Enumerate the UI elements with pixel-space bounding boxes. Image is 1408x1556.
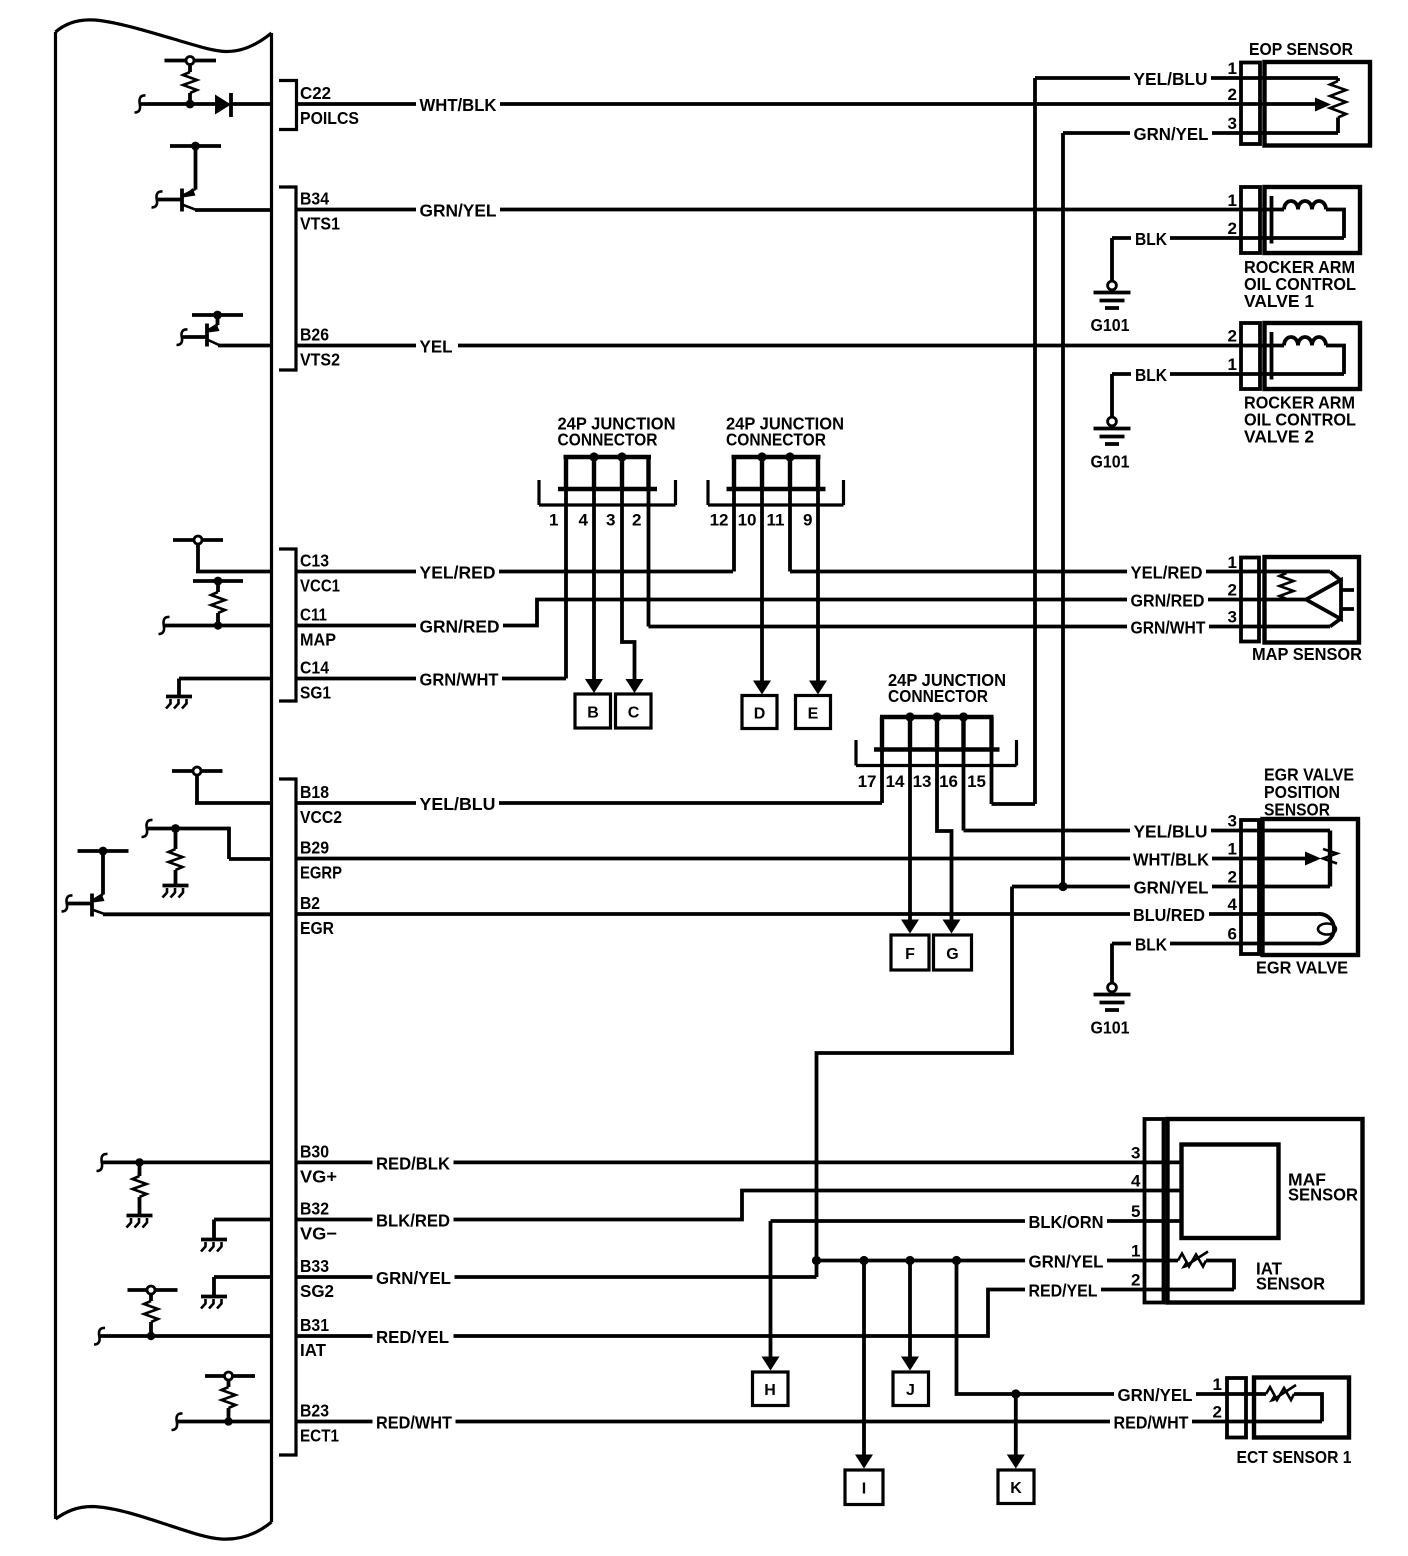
svg-text:VG−: VG−	[300, 1224, 337, 1244]
pin bracket C22	[279, 81, 297, 130]
wire YEL/RED junction 2 pin11 to MAP pin1	[790, 570, 1330, 574]
thermistor ECT	[1266, 1385, 1322, 1422]
wire junction 3 pin15 jog to riser	[992, 802, 1036, 806]
wire B30 internal with hook	[97, 1154, 108, 1171]
transistor Q-B26 rail	[192, 313, 243, 317]
svg-text:14: 14	[886, 772, 905, 791]
resistor R-C22	[188, 65, 192, 73]
wire B34 output	[195, 208, 272, 212]
wire BLK/ORN H riser to MAF pin5	[771, 1219, 1182, 1223]
svg-text:10: 10	[738, 511, 757, 530]
op-amp triangle MAP	[1306, 580, 1341, 619]
wire drop to H	[769, 1221, 773, 1358]
svg-text:D: D	[754, 706, 766, 723]
node GRN/YEL riser junction	[1058, 882, 1067, 891]
wire GRN/YEL EGR pin2	[1012, 885, 1330, 889]
svg-text:4: 4	[1131, 1172, 1141, 1191]
svg-text:CONNECTOR: CONNECTOR	[558, 430, 658, 450]
svg-text:GRN/YEL: GRN/YEL	[1118, 1385, 1193, 1405]
MAF sensor box	[1168, 1119, 1363, 1303]
junction 3 pin15 wire down	[990, 750, 994, 805]
svg-text:GRN/YEL: GRN/YEL	[420, 201, 497, 221]
svg-text:1: 1	[1228, 59, 1237, 78]
solenoid coil EGR valve	[1318, 914, 1334, 944]
wire BLU/RED B2 to EGR pin4	[297, 912, 1319, 916]
component name labels	[1091, 39, 1363, 1467]
svg-text:SG2: SG2	[300, 1281, 334, 1301]
EOP wiper arrow	[1315, 98, 1331, 112]
svg-text:B31: B31	[300, 1315, 329, 1335]
svg-text:13: 13	[913, 772, 932, 791]
rocker arm oil control valve 2 connector	[1241, 323, 1260, 389]
label YEL/BLU (EOP)	[1130, 69, 1211, 87]
svg-text:2: 2	[1228, 219, 1237, 238]
wire WHT/BLK B29 to EGR pin1	[297, 857, 1306, 861]
chassis ground B30	[127, 1216, 153, 1228]
chassis ground B33	[201, 1297, 227, 1309]
resistor R-B29	[174, 829, 178, 850]
transistor Q-B34 rail	[170, 144, 221, 148]
wire GRN/WHT junction 1 pin2 to MAP pin3	[649, 625, 1331, 629]
sensor pin numbers	[1131, 59, 1238, 1422]
svg-text:VTS2: VTS2	[300, 350, 340, 370]
svg-text:GRN/RED: GRN/RED	[1131, 591, 1205, 611]
svg-text:VALVE 1: VALVE 1	[1244, 291, 1314, 311]
svg-text:GRN/YEL: GRN/YEL	[1134, 124, 1209, 144]
svg-text:12: 12	[710, 511, 729, 530]
svg-text:B26: B26	[300, 325, 329, 345]
svg-text:C13: C13	[300, 551, 329, 571]
junction 1 pin1 wire down to GRN/WHT	[564, 489, 568, 679]
continuation arrow E	[809, 681, 827, 695]
svg-text:B2: B2	[300, 893, 320, 913]
label GRN/YEL (ECT)	[1114, 1385, 1196, 1403]
svg-text:2: 2	[632, 511, 641, 530]
resistor R-B23	[227, 1380, 231, 1387]
ground G101 (rocker valve 1)	[1094, 281, 1131, 308]
label GRN/WHT (MAP)	[1127, 618, 1209, 636]
ground wire BLK rocker valve 1	[1112, 236, 1134, 240]
svg-text:SG1: SG1	[300, 683, 331, 703]
wire C13 internal	[196, 570, 272, 574]
label RED/WHT (ECT)	[1110, 1413, 1192, 1431]
wire BLK/RED B32 to MAF pin4	[297, 1191, 1182, 1220]
svg-text:15: 15	[967, 772, 986, 791]
svg-text:I: I	[862, 1481, 866, 1498]
svg-text:B30: B30	[300, 1141, 329, 1161]
resistor EOP sensing element	[1336, 78, 1340, 81]
svg-text:1: 1	[1213, 1375, 1222, 1394]
label GRN/RED	[416, 617, 503, 635]
pin bracket B34/B26	[279, 187, 296, 370]
continuation arrow G	[943, 920, 961, 934]
label GRN/RED (MAP)	[1127, 591, 1208, 609]
transistor Q-B2	[62, 894, 106, 917]
label GRN/WHT	[416, 670, 502, 688]
svg-text:BLU/RED: BLU/RED	[1133, 905, 1205, 925]
svg-text:9: 9	[803, 511, 812, 530]
coil rocker valve 2	[1284, 337, 1326, 346]
wire RED/YEL B31 riser to MAF pin2	[297, 1290, 1235, 1337]
svg-text:CONNECTOR: CONNECTOR	[888, 686, 988, 706]
EOP sensor connector	[1241, 63, 1260, 145]
junction 2 pin10 wire to D	[760, 489, 764, 682]
wire B26 output	[218, 344, 272, 348]
label YEL/BLU	[416, 794, 499, 812]
label BLK (RAV1)	[1131, 229, 1170, 247]
wire C11 internal with hook	[159, 617, 170, 634]
svg-text:B23: B23	[300, 1401, 329, 1421]
svg-text:5: 5	[1131, 1202, 1140, 1221]
label BLK (RAV2)	[1131, 365, 1170, 383]
svg-text:SENSOR: SENSOR	[1288, 1185, 1358, 1205]
label YEL	[416, 337, 458, 355]
wire YEL B26 to rocker valve 2 pin2	[297, 344, 1285, 348]
svg-text:3: 3	[1228, 608, 1237, 627]
EGR wiper arrow	[1305, 852, 1321, 866]
label GRN/YEL	[373, 1268, 455, 1286]
wire YEL/BLU B18 to junction 3 pin17	[297, 801, 883, 805]
junction 3 pin17 wire down to YEL/BLU	[880, 750, 884, 804]
svg-text:RED/BLK: RED/BLK	[376, 1153, 450, 1173]
junction 3 pin14 wire to F	[908, 750, 912, 921]
wire GRN/YEL riser EOP pin3	[1061, 133, 1065, 887]
wire B33 internal	[214, 1275, 272, 1279]
continuation arrow B	[585, 679, 603, 693]
label YEL/BLU (EGR)	[1130, 822, 1211, 840]
svg-text:VTS1: VTS1	[300, 214, 340, 234]
wire GRN/YEL B34 to rocker valve 1 pin1	[297, 208, 1285, 212]
continuation arrow H	[762, 1357, 780, 1371]
svg-text:C22: C22	[300, 83, 331, 103]
chassis ground B32	[201, 1240, 227, 1252]
label GRN/YEL	[416, 201, 500, 219]
svg-text:2: 2	[1228, 581, 1237, 600]
continuation arrow I	[855, 1455, 873, 1469]
rocker arm oil control valve 1 box	[1265, 187, 1361, 253]
svg-text:4: 4	[579, 511, 589, 530]
label WHT/BLK (EGR)	[1130, 850, 1212, 868]
wire B18 internal	[195, 801, 272, 805]
svg-text:YEL: YEL	[420, 337, 453, 357]
continuation arrow J	[901, 1357, 919, 1371]
label BLU/RED (EGR)	[1130, 905, 1209, 923]
resistor MAP internal	[1280, 573, 1294, 599]
junction 3 pin13 wire to G	[937, 750, 952, 921]
wire YEL/RED C13 to junction 2 pin12	[297, 570, 734, 574]
svg-text:17: 17	[858, 772, 877, 791]
label RED/YEL (MAF)	[1025, 1281, 1101, 1299]
svg-text:K: K	[1010, 1480, 1022, 1497]
svg-text:1: 1	[1228, 553, 1237, 572]
svg-text:3: 3	[606, 511, 615, 530]
svg-text:GRN/RED: GRN/RED	[420, 617, 500, 637]
junction 2 pin11 wire down	[788, 489, 792, 572]
svg-text:1: 1	[1131, 1242, 1140, 1261]
C22 internal pull-up rail	[165, 59, 217, 63]
svg-text:1: 1	[1228, 840, 1237, 859]
resistor R-B30	[138, 1162, 142, 1176]
svg-text:RED/WHT: RED/WHT	[1114, 1413, 1189, 1433]
wire drop to J	[908, 1261, 912, 1358]
wire GRN/YEL bus to MAF pin1	[817, 1259, 1179, 1263]
C13 internal rail	[173, 538, 223, 542]
svg-text:POILCS: POILCS	[300, 108, 359, 128]
svg-text:3: 3	[1228, 812, 1237, 831]
svg-text:EGR: EGR	[300, 918, 334, 938]
svg-text:G101: G101	[1091, 452, 1130, 472]
svg-text:4: 4	[1228, 895, 1238, 914]
junction 1 pin2 wire down	[647, 489, 651, 627]
svg-text:GRN/YEL: GRN/YEL	[376, 1268, 451, 1288]
ECM pin code/name labels	[300, 83, 359, 1446]
svg-text:C: C	[628, 705, 640, 722]
wire B31 internal with hook	[94, 1328, 105, 1345]
svg-text:BLK: BLK	[1135, 229, 1167, 249]
svg-text:3: 3	[1131, 1144, 1140, 1163]
ground wire BLK EGR pin6	[1112, 942, 1134, 946]
label YEL/RED	[416, 563, 499, 581]
rocker arm oil control valve 2 box	[1265, 323, 1361, 389]
EGR valve box	[1263, 819, 1359, 955]
label RED/YEL	[373, 1327, 454, 1345]
node GRN/YEL bus to ECT	[952, 1256, 961, 1265]
ECT sensor 1 connector	[1227, 1378, 1246, 1438]
svg-text:BLK: BLK	[1135, 935, 1167, 955]
label YEL/RED (MAP)	[1127, 563, 1206, 581]
junction connector 3 (24P)	[856, 712, 1017, 765]
resistor EGR position track	[1328, 831, 1332, 887]
svg-text:G101: G101	[1091, 1018, 1130, 1038]
transistor Q-B34	[152, 188, 198, 212]
chassis ground C14	[166, 697, 192, 709]
label GRN/YEL (MAF)	[1025, 1252, 1107, 1270]
svg-text:B33: B33	[300, 1256, 329, 1276]
svg-text:VG+: VG+	[300, 1166, 337, 1186]
EOP sensor box	[1265, 62, 1371, 146]
svg-text:YEL/BLU: YEL/BLU	[1134, 69, 1208, 89]
svg-text:C14: C14	[300, 658, 329, 678]
resistor R-B31	[149, 1294, 153, 1301]
svg-text:YEL/RED: YEL/RED	[1131, 563, 1203, 583]
ground G101 (EGR)	[1094, 983, 1131, 1010]
B18 internal rail	[172, 769, 223, 773]
wire RED/BLK B30 to MAF pin3	[297, 1161, 1182, 1165]
svg-text:WHT/BLK: WHT/BLK	[420, 95, 497, 115]
junction 2 pin9 wire to E	[816, 489, 820, 682]
svg-text:H: H	[764, 1382, 776, 1399]
svg-text:YEL/BLU: YEL/BLU	[420, 794, 496, 814]
svg-text:CONNECTOR: CONNECTOR	[726, 430, 826, 450]
EGR valve connector	[1241, 820, 1259, 954]
continuation arrow D	[753, 681, 771, 695]
pin bracket C13/C11/C14	[279, 549, 296, 701]
svg-text:VCC1: VCC1	[300, 576, 340, 596]
svg-text:MAP SENSOR: MAP SENSOR	[1252, 644, 1362, 664]
coil rocker valve 1	[1284, 201, 1326, 210]
svg-text:B34: B34	[300, 189, 329, 209]
MAP sensor connector	[1241, 558, 1259, 642]
wire drop to K	[1014, 1394, 1018, 1456]
label GRN/YEL (EOP)	[1130, 124, 1212, 142]
junction connector headers and pin numbers	[549, 414, 1006, 792]
svg-text:GRN/YEL: GRN/YEL	[1029, 1252, 1104, 1272]
svg-text:BLK: BLK	[1135, 365, 1167, 385]
svg-text:B: B	[587, 705, 599, 722]
svg-text:1: 1	[1228, 355, 1237, 374]
svg-text:EGRP: EGRP	[300, 863, 342, 883]
MAP sensor box	[1265, 557, 1360, 643]
svg-text:G: G	[946, 946, 958, 963]
junction 1 pin4 wire to B	[592, 489, 596, 680]
wire YEL/BLU junction 3 pin16 to EGR pin3	[964, 829, 1331, 833]
svg-text:IAT: IAT	[300, 1340, 326, 1360]
transistor Q-B2 rail	[78, 849, 129, 853]
svg-text:G101: G101	[1091, 315, 1130, 335]
C11 internal rail	[193, 579, 243, 583]
label BLK/ORN (MAF)	[1025, 1212, 1107, 1230]
wire colour labels left	[373, 95, 504, 1433]
svg-text:RED/YEL: RED/YEL	[376, 1327, 449, 1347]
junction 1 pin3 wire to C	[622, 489, 635, 680]
wire C14 internal	[179, 677, 272, 681]
svg-text:2: 2	[1228, 868, 1237, 887]
continuation arrow C	[626, 679, 644, 693]
wire GRN/YEL route EGR to MAF area	[817, 887, 1013, 1261]
svg-text:YEL/RED: YEL/RED	[420, 563, 496, 583]
wire RED/WHT B23 to ECT pin2	[297, 1420, 1323, 1424]
svg-text:RED/YEL: RED/YEL	[1029, 1281, 1098, 1301]
svg-text:16: 16	[939, 772, 958, 791]
svg-text:BLK/ORN: BLK/ORN	[1029, 1212, 1104, 1232]
svg-text:1: 1	[1228, 191, 1237, 210]
ground wire BLK rocker valve 2	[1112, 372, 1134, 376]
wire GRN/YEL bus drop to ECT pin1	[957, 1261, 1267, 1395]
svg-text:BLK/RED: BLK/RED	[376, 1211, 450, 1231]
svg-text:VCC2: VCC2	[300, 807, 342, 827]
label RED/WHT	[373, 1413, 456, 1431]
MAF element square	[1182, 1145, 1279, 1239]
wire drop to I	[862, 1261, 866, 1456]
junction connector 1 (24P)	[539, 452, 676, 505]
continuation arrow K	[1007, 1455, 1025, 1469]
wire GRN/WHT C14 to junction 1 pin1	[297, 677, 567, 681]
wire B23 internal with hook	[172, 1413, 183, 1430]
svg-text:2: 2	[1131, 1271, 1140, 1290]
wire colour labels right	[1025, 69, 1212, 1433]
svg-text:1: 1	[549, 511, 558, 530]
ground G101 (rocker valve 2)	[1094, 417, 1131, 444]
label BLK (EGR)	[1131, 935, 1170, 953]
svg-text:RED/WHT: RED/WHT	[376, 1413, 452, 1433]
wire B32 internal	[214, 1218, 272, 1222]
svg-text:E: E	[808, 706, 819, 723]
wire YEL/BLU riser to EOP pin1	[1033, 78, 1037, 804]
continuation arrow F	[901, 920, 919, 934]
junction 3 pin16 wire down to EGR YEL/BLU	[962, 750, 966, 831]
svg-text:SENSOR: SENSOR	[1256, 1274, 1325, 1294]
label GRN/YEL (EGR)	[1130, 878, 1212, 896]
resistor R-C11	[216, 581, 220, 592]
rocker arm oil control valve 1 connector	[1241, 187, 1260, 253]
svg-text:WHT/BLK: WHT/BLK	[1133, 850, 1209, 870]
pin bracket B18..B23	[279, 779, 296, 1455]
B31 internal pull-up rail	[128, 1288, 178, 1292]
svg-text:2: 2	[1213, 1403, 1222, 1422]
svg-text:EOP SENSOR: EOP SENSOR	[1249, 39, 1353, 59]
svg-text:GRN/YEL: GRN/YEL	[1134, 878, 1209, 898]
svg-text:SENSOR: SENSOR	[1264, 800, 1330, 820]
thermistor IAT	[1178, 1252, 1234, 1290]
chassis ground B29	[163, 886, 189, 898]
svg-text:J: J	[906, 1382, 915, 1399]
wire B29 internal with hook	[142, 820, 153, 837]
ECT sensor 1 box	[1254, 1378, 1349, 1438]
wire GRN/RED C11 to MAP pin2	[297, 600, 1307, 626]
svg-text:EGR VALVE: EGR VALVE	[1256, 958, 1348, 978]
ECM connector body (torn-edge outline)	[56, 20, 272, 1539]
svg-text:GRN/WHT: GRN/WHT	[1131, 618, 1206, 638]
svg-text:B29: B29	[300, 838, 329, 858]
B23 internal pull-up rail	[205, 1374, 255, 1378]
node circle C22 rail	[186, 57, 194, 65]
svg-text:ECT1: ECT1	[300, 1426, 339, 1446]
svg-text:F: F	[905, 946, 915, 963]
MAF sensor connector	[1145, 1119, 1164, 1303]
svg-text:GRN/WHT: GRN/WHT	[420, 670, 499, 690]
svg-text:YEL/BLU: YEL/BLU	[1134, 822, 1208, 842]
label BLK/RED	[373, 1211, 454, 1229]
svg-text:11: 11	[767, 511, 785, 530]
transistor Q-B26	[177, 324, 221, 347]
svg-text:C11: C11	[300, 605, 327, 625]
svg-text:2: 2	[1228, 327, 1237, 346]
label RED/BLK	[373, 1153, 454, 1171]
svg-text:2: 2	[1228, 85, 1237, 104]
diode D-C22	[215, 95, 231, 115]
junction 2 pin12 wire down to YEL/RED	[732, 489, 736, 572]
wire GRN/YEL B33 to bus	[297, 1275, 817, 1279]
svg-text:6: 6	[1228, 925, 1237, 944]
svg-text:VALVE 2: VALVE 2	[1244, 427, 1314, 447]
svg-text:MAP: MAP	[300, 630, 336, 650]
label WHT/BLK	[416, 95, 500, 113]
wire B2 output	[103, 912, 272, 916]
wire WHT/BLK C22 to EOP pin2	[297, 102, 1318, 106]
svg-text:3: 3	[1228, 114, 1237, 133]
svg-text:ECT SENSOR 1: ECT SENSOR 1	[1237, 1447, 1352, 1467]
wire C22 base input with hook	[135, 95, 146, 112]
svg-text:B18: B18	[300, 782, 329, 802]
node GRN/YEL bus joins riser	[812, 1256, 821, 1265]
junction connector 2 (24P)	[708, 452, 844, 505]
svg-text:B32: B32	[300, 1199, 329, 1219]
